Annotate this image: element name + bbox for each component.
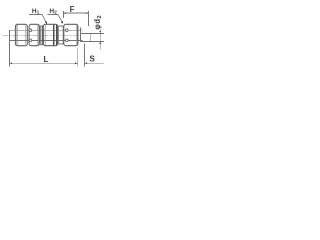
sleeve circle lower right — [66, 39, 69, 42]
body hex dark corner bar 1 — [53, 24, 54, 45]
dimension L line — [10, 62, 78, 64]
dimension L arrow right — [75, 62, 78, 64]
neck right edge — [80, 28, 82, 43]
svg-text:L: L — [44, 55, 49, 64]
dimension F extension right — [87, 11, 89, 26]
male stub bottom line + phi-d2 bottom extension — [81, 40, 105, 42]
nut N2 — [29, 24, 39, 45]
dimension H1 arrow — [45, 21, 47, 24]
centerline — [3, 34, 81, 36]
dimension H2 leader — [58, 14, 63, 22]
tube stub end — [9, 30, 11, 40]
inner horizontal line bottom (tube OD) — [10, 39, 83, 41]
spacer collar — [58, 26, 63, 44]
svg-text:F: F — [70, 5, 75, 14]
male stub right end — [89, 33, 91, 41]
neck left edge — [77, 30, 79, 40]
dimension F arrow right — [86, 12, 89, 14]
dimension F extension left — [62, 11, 64, 18]
background — [0, 0, 116, 75]
dimension F line — [63, 12, 88, 14]
svg-text:S: S — [90, 55, 96, 64]
sleeve circle upper left — [29, 29, 32, 32]
dimension phi-d2 arrow up — [99, 41, 101, 44]
nut N3 — [64, 24, 78, 45]
nut N1 — [15, 24, 27, 45]
dimension F arrow left — [63, 12, 66, 14]
nut N3 right face dark edge — [76, 25, 78, 46]
sleeve circle upper right — [66, 29, 69, 32]
dimension S leader line — [85, 62, 104, 64]
dimension H1 shelf — [29, 13, 42, 15]
body hex — [44, 24, 58, 45]
dimension H1 leader — [42, 14, 46, 22]
shoulder ring — [41, 26, 43, 45]
dimension phi-d2 arrow down — [99, 31, 101, 34]
male stub top line + phi-d2 top extension — [81, 32, 105, 34]
dimension L extension left — [9, 40, 11, 66]
dimension H2 arrow — [61, 21, 63, 24]
dimension H2 shelf — [47, 13, 58, 15]
inner horizontal line top (tube OD) — [10, 29, 83, 31]
sleeve circle lower left — [29, 39, 32, 42]
dimension phi-d2 line — [99, 29, 101, 50]
dimension S extension right — [84, 43, 86, 66]
dimension L extension right / S extension left — [77, 48, 79, 67]
dimension S arrow — [85, 62, 88, 64]
dimension L arrow left — [10, 62, 13, 64]
body hex dark corner bar 2 — [56, 24, 58, 45]
